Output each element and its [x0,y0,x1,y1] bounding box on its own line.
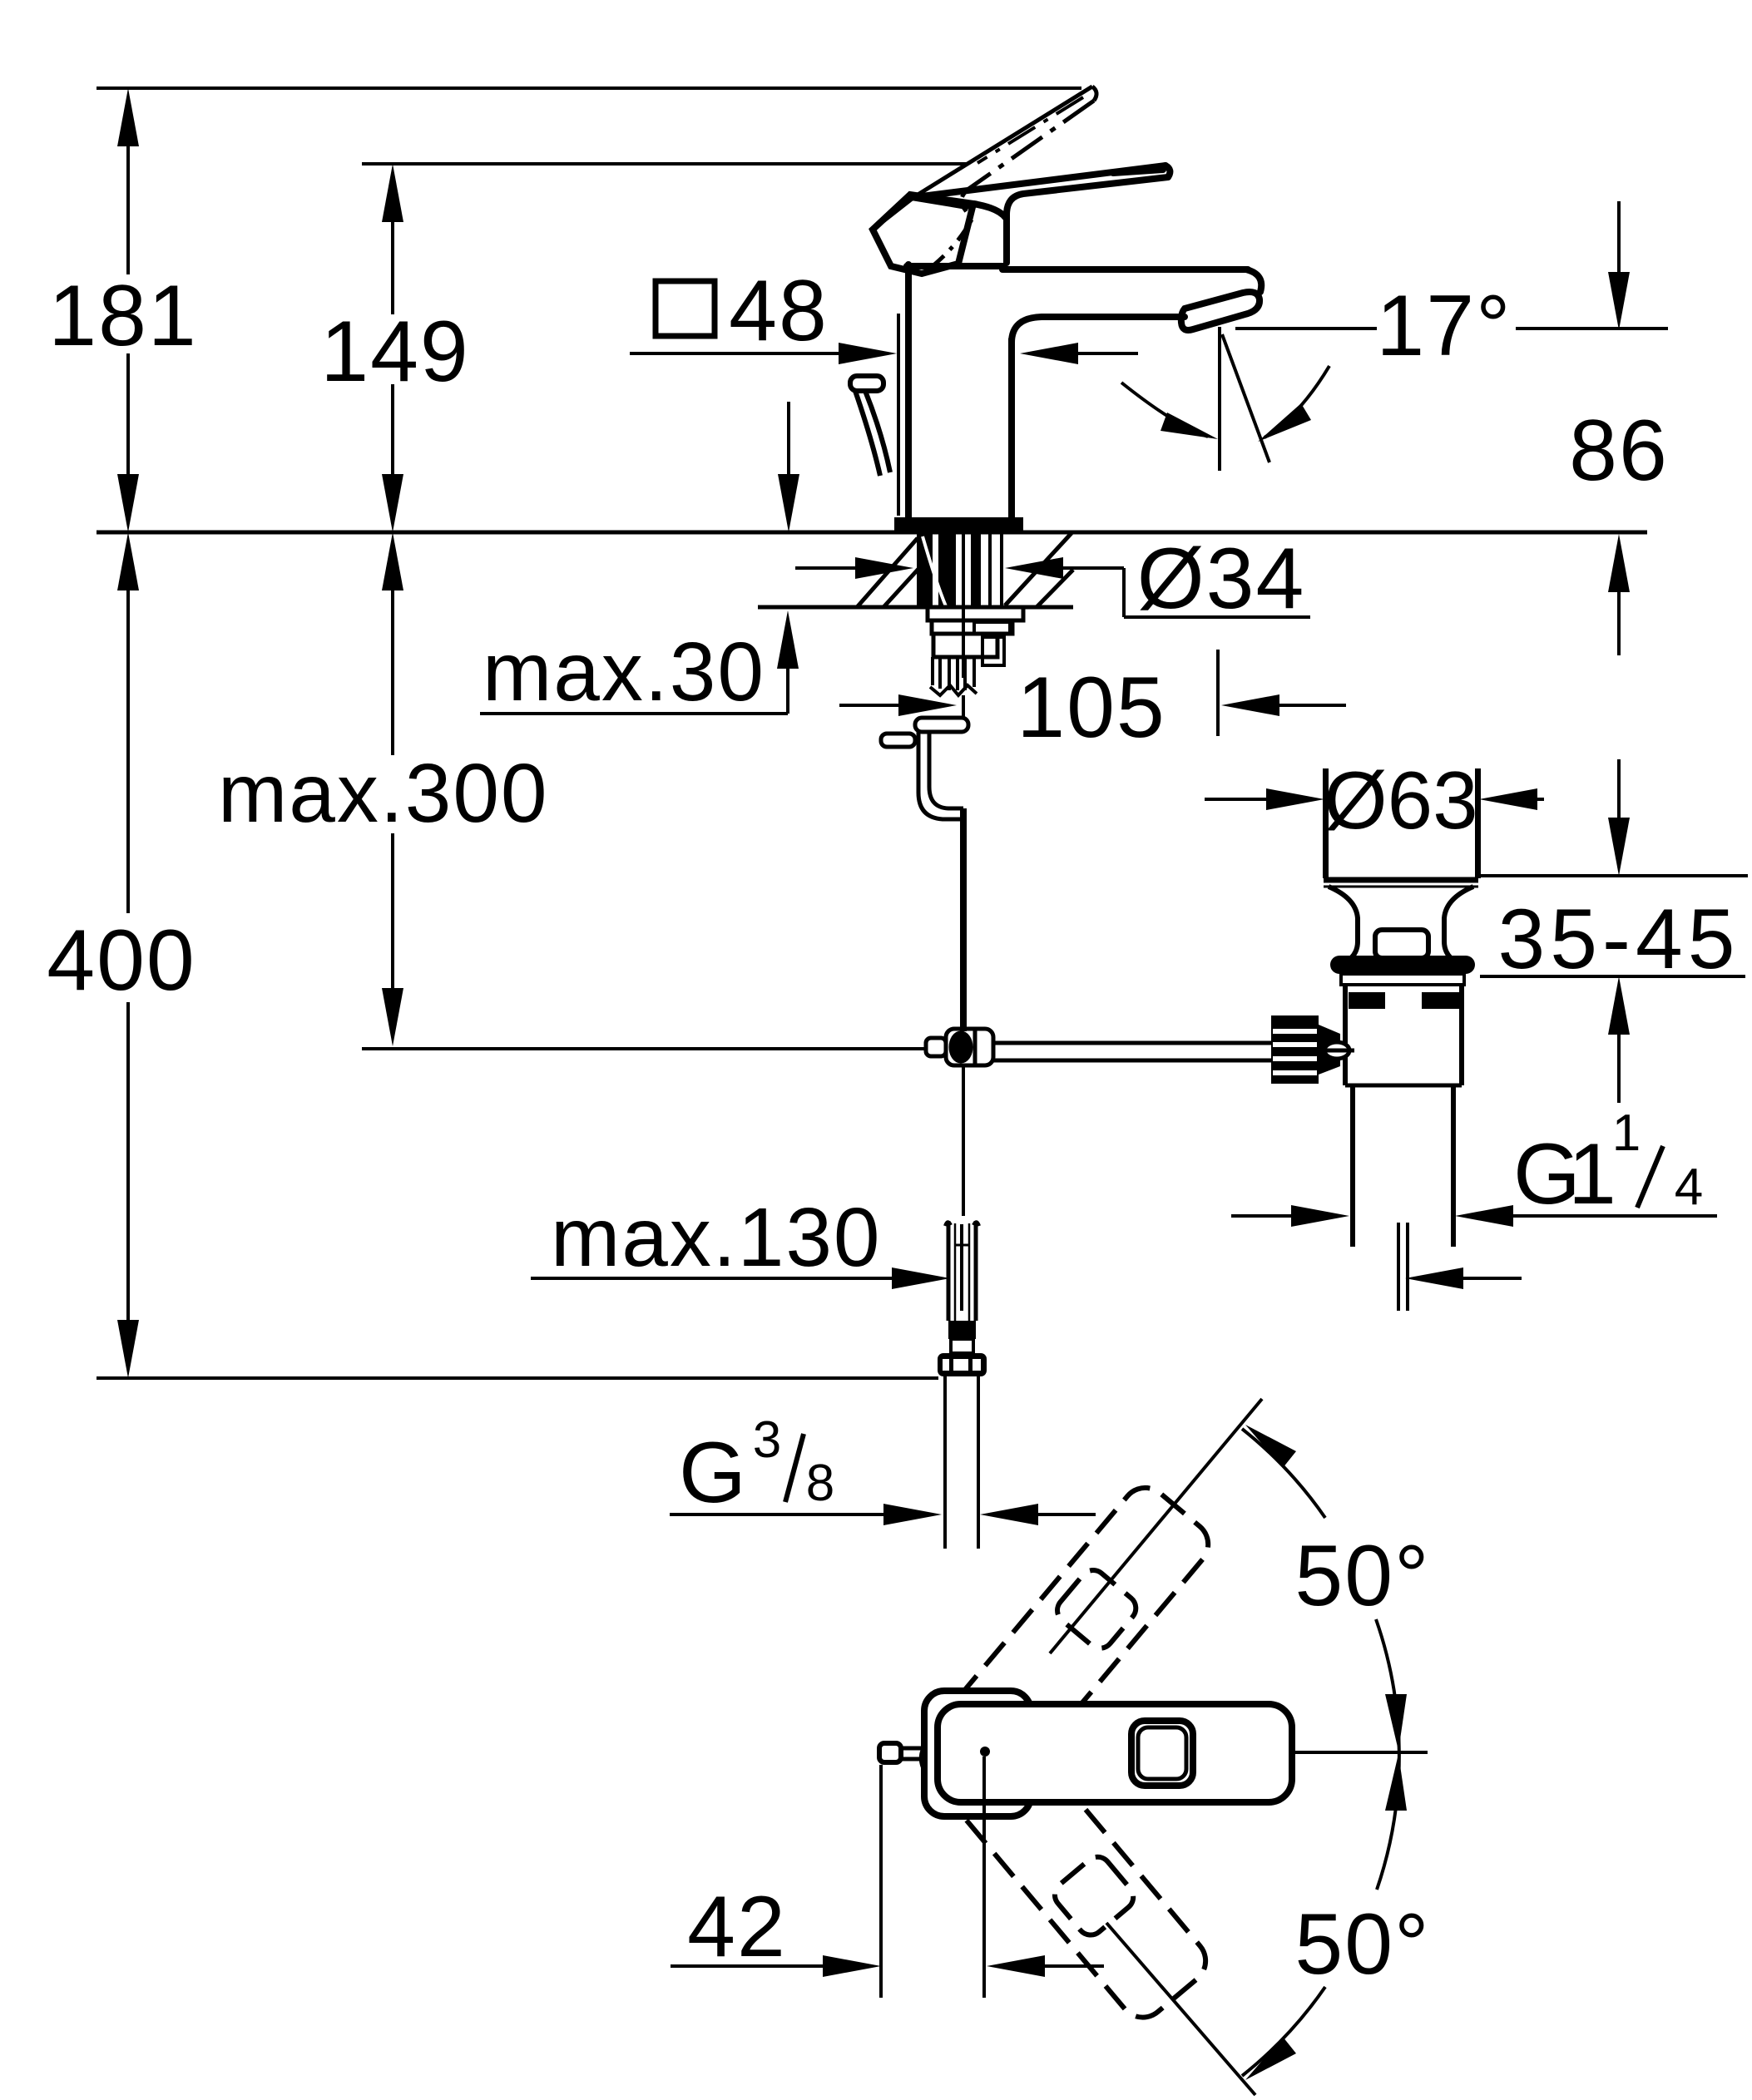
svg-text:400: 400 [47,912,196,1009]
svg-text:1: 1 [1568,1126,1618,1223]
svg-text:50°: 50° [1294,1896,1430,1993]
svg-text:max.130: max.130 [551,1191,882,1284]
svg-text:42: 42 [687,1879,787,1975]
svg-text:48: 48 [729,263,829,359]
svg-text:17°: 17° [1376,278,1512,374]
svg-text:G: G [679,1425,748,1521]
svg-text:1: 1 [1612,1104,1641,1162]
svg-text:149: 149 [320,304,470,400]
svg-text:Ø63: Ø63 [1324,754,1477,846]
svg-text:86: 86 [1569,403,1669,499]
svg-text:50°: 50° [1294,1528,1430,1624]
svg-text:3: 3 [753,1411,781,1469]
svg-text:max.30: max.30 [483,625,765,719]
svg-text:35-45: 35-45 [1498,892,1740,986]
svg-text:Ø34: Ø34 [1137,531,1306,627]
svg-text:4: 4 [1675,1159,1703,1216]
svg-text:105: 105 [1017,660,1166,756]
svg-text:8: 8 [806,1455,834,1512]
svg-text:181: 181 [48,268,198,364]
svg-text:max.300: max.300 [218,747,549,840]
